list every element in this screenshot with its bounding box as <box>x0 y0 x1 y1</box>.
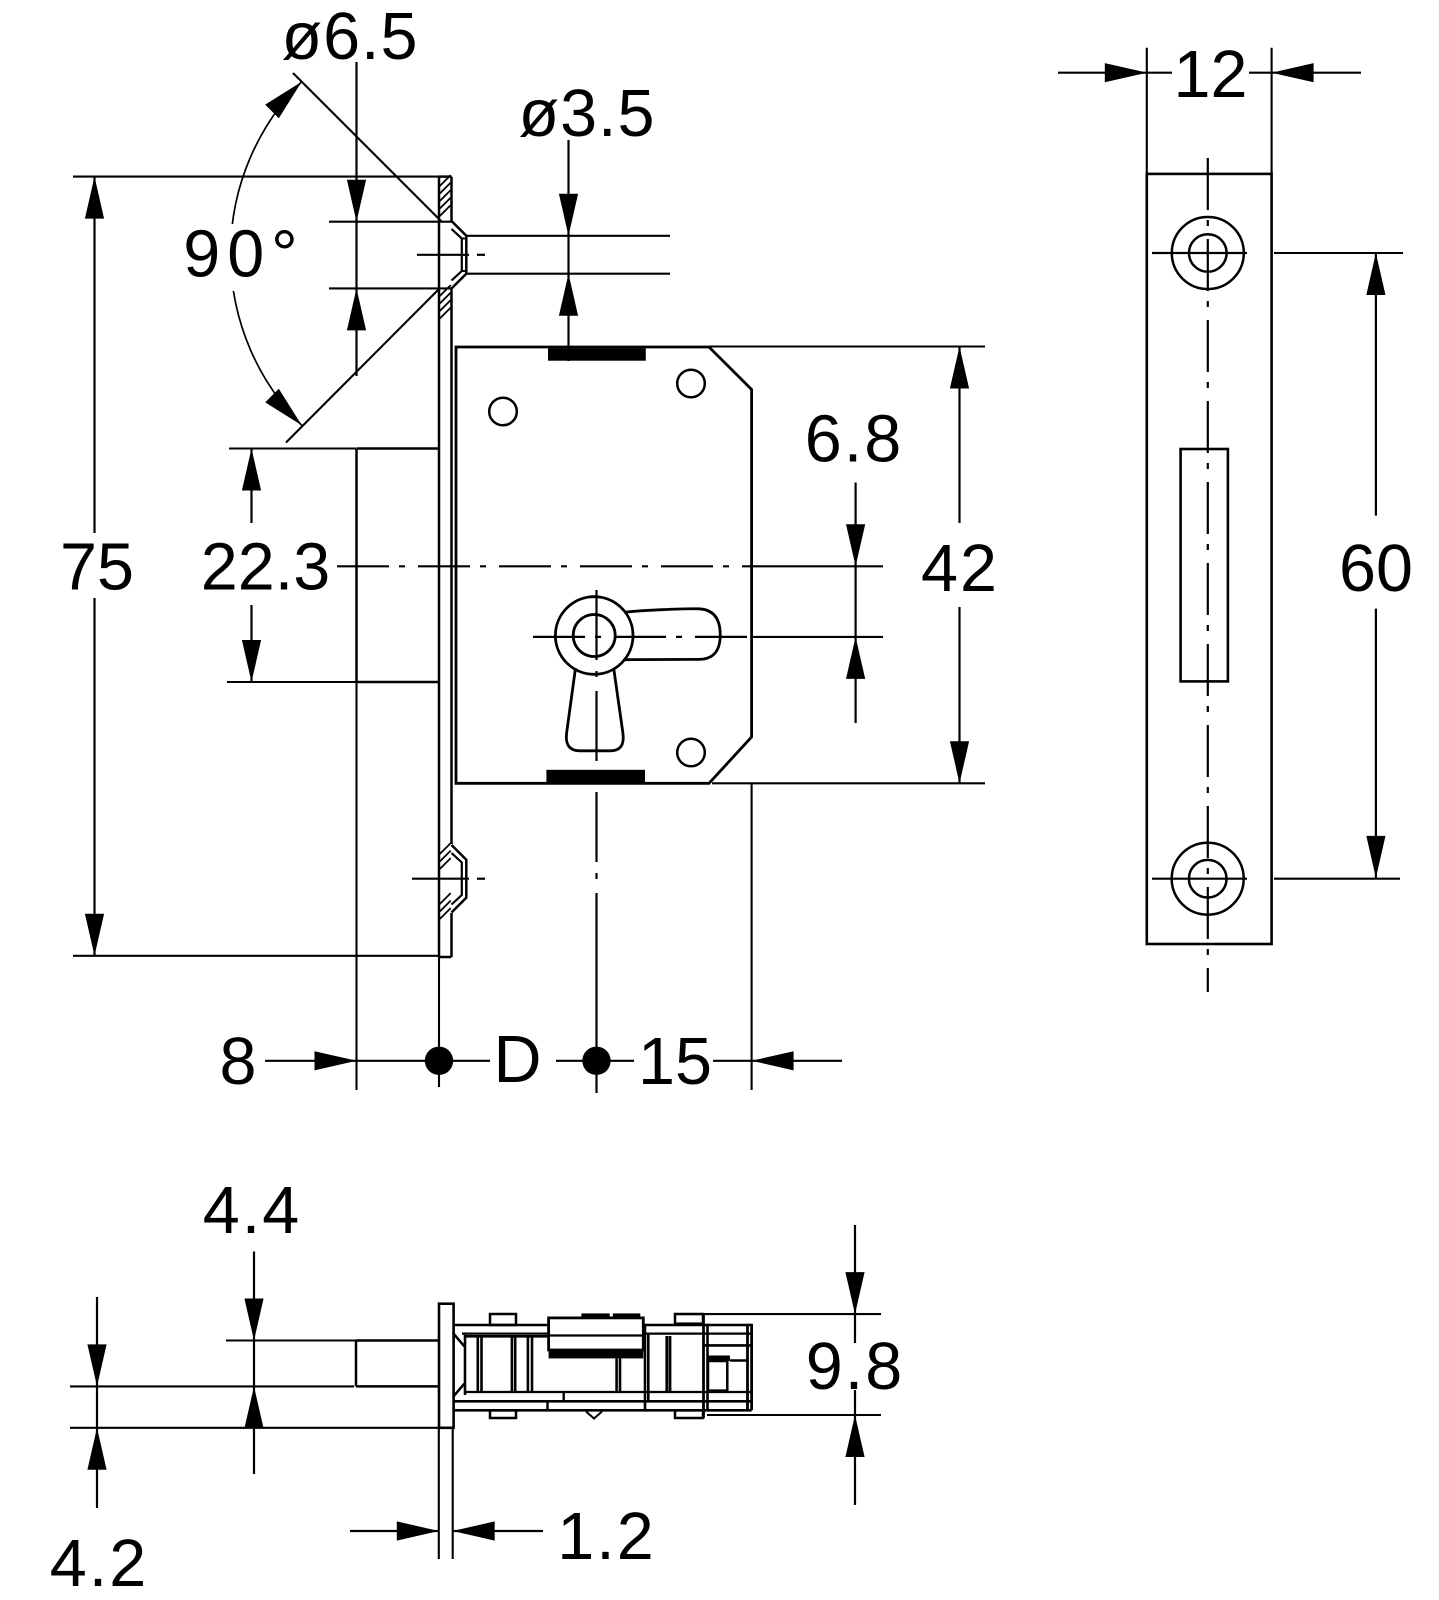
svg-text:ø3.5: ø3.5 <box>518 77 655 151</box>
svg-text:4.2: 4.2 <box>50 1527 148 1600</box>
svg-text:1.2: 1.2 <box>557 1500 655 1574</box>
svg-text:22.3: 22.3 <box>201 531 330 605</box>
svg-text:4.4: 4.4 <box>203 1174 301 1248</box>
svg-text:15: 15 <box>638 1025 712 1099</box>
svg-text:90°: 90° <box>183 218 305 292</box>
svg-text:75: 75 <box>60 531 134 605</box>
svg-text:9.8: 9.8 <box>806 1330 904 1404</box>
svg-text:D: D <box>493 1023 541 1097</box>
svg-text:42: 42 <box>921 532 999 606</box>
svg-text:ø6.5: ø6.5 <box>281 0 418 74</box>
svg-text:12: 12 <box>1174 38 1248 112</box>
svg-text:8: 8 <box>220 1025 257 1099</box>
svg-text:6.8: 6.8 <box>805 403 903 477</box>
svg-text:60: 60 <box>1339 532 1413 606</box>
